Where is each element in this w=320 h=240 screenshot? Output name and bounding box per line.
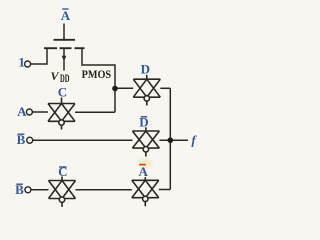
input bubble B row3 xyxy=(27,137,33,143)
wire gate C output to vertical riser xyxy=(75,111,115,113)
transistor U1 body lead to VDD xyxy=(63,49,65,71)
node f junction dot xyxy=(168,137,174,143)
transmission gate TG-C xyxy=(48,98,75,130)
wire gate TG-Dbar output to f xyxy=(159,139,188,141)
transistor U1 body arrow head xyxy=(62,56,67,62)
wire source lead to input bubble xyxy=(31,49,47,64)
transmission gate TG-Cbar xyxy=(49,177,76,207)
svg-text:A: A xyxy=(139,164,149,179)
svg-text:A: A xyxy=(61,8,71,23)
svg-text:C: C xyxy=(58,164,67,179)
svg-text:V: V xyxy=(51,69,60,83)
svg-text:D: D xyxy=(141,62,150,77)
wire input Bbar to gate Cbar xyxy=(31,189,49,191)
wire drain lead to node xyxy=(82,49,115,87)
transmission gate TG-Abar xyxy=(132,177,159,206)
transmission gate TG-Dbar xyxy=(132,127,159,156)
svg-text:A: A xyxy=(17,104,27,119)
wire output bus vertical xyxy=(169,88,171,189)
wire gate Cbar output to gate Abar input xyxy=(76,189,132,191)
svg-text:DD: DD xyxy=(60,71,70,85)
transistor U1 channel segments xyxy=(44,47,57,49)
wire input B to gate TG-Dbar xyxy=(33,139,133,141)
transistor U1 gate bar xyxy=(54,39,76,41)
transistor U1 gate lead wire xyxy=(63,24,65,40)
input bubble Bbar row4 xyxy=(25,187,31,193)
input bubble A xyxy=(26,109,32,115)
wire input A to gate C xyxy=(32,111,48,113)
svg-text:C: C xyxy=(58,85,67,100)
transmission gate TG-D xyxy=(133,75,160,106)
wire node to gate TG-D xyxy=(115,87,133,89)
svg-text:1: 1 xyxy=(18,54,25,69)
input bubble for constant 1 xyxy=(25,61,31,67)
wire gate TG-Abar output to bus xyxy=(159,189,171,191)
svg-text:PMOS: PMOS xyxy=(82,67,112,81)
wire gate TG-D output to bus xyxy=(160,87,170,89)
node J1 junction dot xyxy=(112,86,118,92)
wire node to gate TG-D down to gate C output xyxy=(114,89,116,113)
